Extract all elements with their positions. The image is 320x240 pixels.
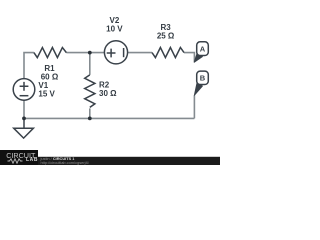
logo resistor zigzag [7,158,26,164]
logo CIRCUIT text [6,152,40,159]
svg-text:15 V: 15 V [38,90,55,99]
terminal A [194,42,208,62]
wire: V2 right terminal to R3 [128,52,153,54]
resistor R3 [152,48,184,58]
svg-text:30 Ω: 30 Ω [99,89,117,98]
wire: V1 bottom down to ground junction [23,100,25,118]
voltage source V1 [13,79,35,101]
ground [23,118,25,128]
watermark line 2 [41,161,89,165]
watermark bar [0,157,220,165]
wire: bottom rail [24,117,194,119]
svg-text:A: A [200,44,206,53]
voltage source V2 [104,41,127,64]
node junction dot bottom (R2/bottom wire) [88,117,92,121]
wire: R2 top lead up to top wire junction [89,53,91,75]
resistor R1 [34,48,67,58]
svg-text:B: B [200,73,206,82]
wire: top-left corner from V1 top up and right to R1 [24,53,34,79]
svg-text:25 Ω: 25 Ω [157,32,175,41]
wire: right rail from terminal B pin down to bottom rail [193,95,195,118]
terminal B [194,71,208,95]
watermark line 1 [41,157,75,161]
resistor R2 [85,75,95,108]
svg-text:10 V: 10 V [106,25,123,34]
node junction dot ground [22,117,26,121]
logo block [0,150,38,165]
svg-text:R2: R2 [99,81,110,90]
node junction dot top (R2/top wire) [88,51,92,55]
wire: R1 right lead to V2 left terminal [66,52,104,54]
wire: R3 right lead to corner, down to terminal A pin [184,53,194,62]
wire: R2 bottom lead down to bottom wire [89,108,91,118]
logo LAB text [26,158,38,163]
